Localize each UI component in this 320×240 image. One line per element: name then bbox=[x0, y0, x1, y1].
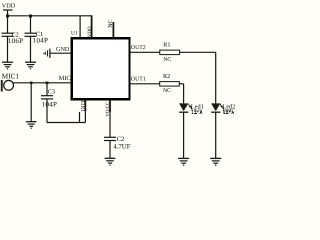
svg-text:NC: NC bbox=[163, 88, 171, 94]
svg-text:Led2: Led2 bbox=[223, 103, 236, 110]
svg-text:NC: NC bbox=[108, 19, 114, 27]
svg-text:4.7UF: 4.7UF bbox=[113, 144, 130, 151]
svg-text:MIC1: MIC1 bbox=[2, 72, 20, 80]
svg-text:C3: C3 bbox=[48, 88, 55, 95]
svg-text:Led1: Led1 bbox=[191, 103, 204, 110]
svg-text:VDD: VDD bbox=[2, 2, 16, 9]
svg-text:NC: NC bbox=[163, 57, 171, 63]
svg-text:104P: 104P bbox=[33, 37, 48, 45]
svg-text:MIC: MIC bbox=[59, 75, 71, 82]
svg-text:104P: 104P bbox=[42, 100, 57, 108]
svg-text:INTB: INTB bbox=[80, 99, 86, 112]
svg-text:VO/CC: VO/CC bbox=[105, 101, 111, 117]
svg-text:GND: GND bbox=[56, 46, 70, 53]
svg-text:OUT1: OUT1 bbox=[131, 76, 146, 82]
svg-text:VDD: VDD bbox=[87, 26, 93, 37]
svg-text:U1: U1 bbox=[71, 31, 78, 37]
svg-text:106P: 106P bbox=[8, 37, 23, 45]
svg-text:R2: R2 bbox=[163, 73, 170, 80]
svg-text:R1: R1 bbox=[163, 41, 170, 48]
svg-text:OUT2: OUT2 bbox=[131, 45, 146, 51]
svg-text:C2: C2 bbox=[117, 136, 125, 143]
